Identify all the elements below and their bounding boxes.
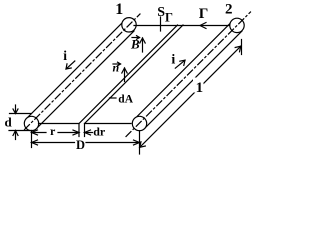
svg-text:dr: dr xyxy=(93,125,106,139)
svg-text:D: D xyxy=(76,138,85,152)
svg-text:dA: dA xyxy=(118,94,133,106)
svg-text:1: 1 xyxy=(196,80,204,96)
svg-text:2: 2 xyxy=(225,2,233,18)
svg-text:n: n xyxy=(113,61,120,75)
svg-text:S: S xyxy=(157,5,165,20)
svg-text:Γ: Γ xyxy=(165,10,173,24)
svg-text:1: 1 xyxy=(115,1,123,18)
svg-text:B: B xyxy=(130,37,140,52)
svg-text:r: r xyxy=(50,124,56,138)
svg-text:d: d xyxy=(5,115,13,130)
svg-text:i: i xyxy=(63,48,67,63)
svg-text:i: i xyxy=(171,53,175,68)
svg-text:Γ: Γ xyxy=(199,6,209,22)
